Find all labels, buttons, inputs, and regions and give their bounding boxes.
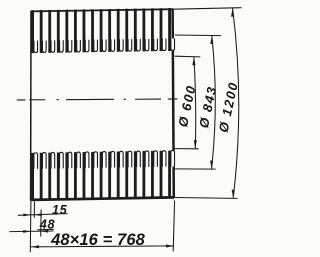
O843 up arrowhead	[210, 36, 213, 44]
slot 5 top band: slit with round-bottom groove	[65, 10, 71, 53]
slot 6 bottom band: slit with round-top groove	[74, 152, 80, 199]
extension line C (one pitch, 48 dim)	[40, 210, 42, 237]
slot 1 top band: slit with round-bottom groove	[31, 10, 37, 53]
dimension line 15	[18, 214, 68, 216]
extension line D from body right edge down	[173, 201, 174, 252]
drum body right edge	[173, 9, 174, 198]
slot 3 top band: slit with round-bottom groove	[48, 10, 54, 53]
slot 16 bottom band: slit with round-top groove	[160, 151, 166, 198]
slot 17 top band: slit with round-bottom groove	[168, 8, 174, 51]
O600 up arrowhead	[192, 57, 195, 65]
dimension line 48	[9, 230, 53, 233]
svg-text:48×16 = 768: 48×16 = 768	[50, 231, 145, 249]
O843 down arrowhead	[210, 161, 213, 169]
O1200 dimension line	[233, 8, 239, 198]
slot 2 top band: slit with round-bottom groove	[40, 10, 46, 53]
slot 10 bottom band: slit with round-top groove	[108, 151, 114, 198]
slot 13 bottom band: slit with round-top groove	[134, 151, 140, 198]
768 dim right-pointing arrowhead	[166, 244, 174, 247]
slot 11 bottom band: slit with round-top groove	[117, 151, 123, 198]
extension line A from body left edge down	[29, 202, 32, 253]
dimension line 48x16=768	[31, 246, 174, 247]
drum body left edge	[30, 11, 32, 201]
slot 15 top band: slit with round-bottom groove	[151, 8, 157, 51]
O600 top extension line	[175, 55, 201, 58]
slot 6 top band: slit with round-bottom groove	[74, 10, 80, 53]
768 dim left-pointing arrowhead	[31, 245, 39, 248]
slot 14 bottom band: slit with round-top groove	[142, 151, 148, 198]
slot 3 bottom band: slit with round-top groove	[48, 152, 54, 199]
slot 8 top band: slit with round-bottom groove	[91, 9, 97, 52]
O600 down arrowhead	[194, 140, 197, 148]
slot 12 top band: slit with round-bottom groove	[125, 9, 131, 52]
O600 dimension line	[194, 57, 196, 149]
15 dim right-pointing arrowhead	[23, 213, 30, 216]
slot 12 bottom band: slit with round-top groove	[125, 151, 131, 198]
O843 bottom extension line	[174, 168, 215, 170]
slot 5 bottom band: slit with round-top groove	[65, 152, 71, 199]
slot 17 bottom band: slit with round-top groove	[168, 150, 174, 197]
slot 9 top band: slit with round-bottom groove	[100, 9, 106, 52]
slot 14 top band: slit with round-bottom groove	[142, 8, 148, 51]
slot 8 bottom band: slit with round-top groove	[91, 152, 97, 199]
15 dim left-pointing arrowhead	[35, 213, 42, 216]
top edge extension line to O1200 dimension	[173, 8, 242, 10]
slot 4 top band: slit with round-bottom groove	[57, 10, 63, 53]
48 dim left-pointing arrowhead	[41, 230, 48, 233]
slot 7 bottom band: slit with round-top groove	[83, 152, 89, 199]
drum body bottom edge	[30, 197, 174, 200]
slot 4 bottom band: slit with round-top groove	[57, 152, 63, 199]
horizontal centerline (dash-dot axis)	[17, 99, 26, 101]
bottom edge extension line to O1200 dimension	[174, 197, 238, 200]
extension line B (slot edge, 15 dim)	[33, 202, 35, 218]
slot 10 top band: slit with round-bottom groove	[108, 9, 114, 52]
O1200 up arrowhead	[231, 8, 234, 16]
slot 1 bottom band: slit with round-top groove	[31, 153, 37, 200]
slot 16 top band: slit with round-bottom groove	[160, 8, 166, 51]
O600 bottom extension line	[175, 148, 199, 150]
slot 13 top band: slit with round-bottom groove	[134, 9, 140, 52]
48 dim right-pointing arrowhead	[23, 230, 30, 233]
slot 2 bottom band: slit with round-top groove	[40, 153, 46, 200]
O843 dimension line	[212, 36, 216, 169]
svg-text:15: 15	[52, 203, 68, 217]
slot 9 bottom band: slit with round-top groove	[100, 152, 106, 199]
slot 15 bottom band: slit with round-top groove	[151, 151, 157, 198]
drum body top edge (O1200 outer surface)	[31, 9, 173, 11]
slot 11 top band: slit with round-bottom groove	[117, 9, 123, 52]
O1200 down arrowhead	[232, 190, 235, 198]
slot 7 top band: slit with round-bottom groove	[83, 9, 89, 52]
svg-text:Ø 843: Ø 843	[196, 84, 220, 129]
underline of label 48	[37, 228, 53, 231]
O843 top extension line	[175, 34, 221, 37]
